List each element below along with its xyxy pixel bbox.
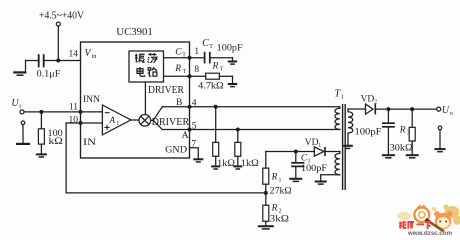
svg-text:4.7kΩ: 4.7kΩ [198, 82, 223, 92]
svg-text:+4.5~+40V: +4.5~+40V [39, 10, 84, 22]
svg-text:T: T [183, 69, 187, 75]
svg-text:1kΩ: 1kΩ [217, 159, 235, 169]
svg-text:DRIVER: DRIVER [152, 117, 190, 128]
svg-text:R: R [212, 61, 219, 71]
svg-text:1: 1 [341, 93, 344, 100]
svg-text:2: 2 [374, 100, 377, 106]
svg-text:R: R [174, 64, 181, 74]
svg-text:1: 1 [318, 143, 321, 149]
svg-text:DRIVER: DRIVER [148, 85, 184, 96]
svg-text:100pF: 100pF [217, 44, 243, 54]
svg-text:1: 1 [194, 47, 199, 57]
svg-text:100pF: 100pF [355, 128, 382, 138]
svg-text:5: 5 [192, 122, 197, 132]
svg-text:kΩ: kΩ [49, 137, 63, 147]
svg-text:UC3901: UC3901 [116, 26, 153, 38]
svg-text:VD: VD [305, 138, 319, 148]
svg-text:T: T [220, 66, 224, 72]
svg-text:0.1μF: 0.1μF [37, 69, 61, 79]
svg-text:i: i [19, 103, 21, 110]
svg-text:U: U [442, 105, 450, 116]
svg-text:100pF: 100pF [301, 164, 327, 174]
svg-text:GND: GND [165, 146, 187, 156]
svg-text:11: 11 [69, 103, 78, 113]
svg-text:3: 3 [407, 131, 410, 137]
svg-text:R: R [399, 126, 406, 136]
svg-text:7: 7 [191, 140, 196, 150]
svg-text:www.dzsc.com: www.dzsc.com [407, 230, 452, 236]
svg-text:30kΩ: 30kΩ [390, 143, 413, 153]
svg-text:R: R [271, 173, 278, 183]
svg-text:VD: VD [361, 95, 375, 105]
svg-text:27kΩ: 27kΩ [270, 186, 292, 196]
svg-text:4: 4 [192, 98, 197, 108]
svg-text:A: A [109, 115, 116, 125]
svg-text:INN: INN [83, 95, 100, 105]
svg-text:U: U [11, 98, 19, 109]
svg-text:T: T [182, 53, 186, 59]
svg-text:1kΩ: 1kΩ [241, 159, 259, 169]
svg-text:in: in [92, 53, 98, 60]
svg-text:C: C [202, 38, 209, 49]
svg-text:8: 8 [194, 65, 199, 75]
svg-text:T: T [209, 44, 213, 50]
svg-text:10: 10 [69, 115, 79, 125]
svg-text:1: 1 [116, 121, 119, 127]
svg-text:R: R [271, 204, 278, 214]
svg-text:B: B [176, 98, 182, 108]
svg-text:o: o [450, 110, 453, 117]
svg-text:14: 14 [69, 50, 79, 60]
svg-text:A: A [182, 131, 189, 141]
svg-text:3kΩ: 3kΩ [270, 214, 289, 224]
svg-text:1: 1 [279, 178, 282, 184]
svg-text:IN: IN [83, 138, 96, 148]
